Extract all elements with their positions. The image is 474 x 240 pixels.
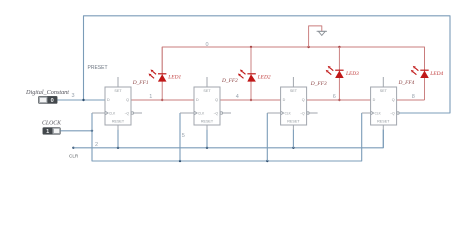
wire: FF2 clock drop xyxy=(179,113,181,161)
svg-text:1: 1 xyxy=(46,129,49,135)
node: LED2 top junction xyxy=(250,46,252,48)
wire: FF4 RESET to CLR bus xyxy=(382,130,384,148)
wire: ground stub xyxy=(309,26,322,47)
svg-text:CLK: CLK xyxy=(285,112,292,116)
svg-text:CLR: CLR xyxy=(69,154,79,159)
node: LED3 top junction xyxy=(338,46,340,48)
svg-text:D: D xyxy=(283,98,286,102)
wire: clock bus distributing CLOCK to all flip-flops xyxy=(92,113,362,161)
node: FF3 reset junction xyxy=(292,147,294,149)
node: LED3 anode to Q3 wire xyxy=(338,99,340,101)
svg-text:RESET: RESET xyxy=(201,120,214,124)
svg-text:D: D xyxy=(196,98,199,102)
svg-text:~Q: ~Q xyxy=(300,112,305,116)
svg-text:Q: Q xyxy=(302,98,305,102)
svg-text:SET: SET xyxy=(203,89,211,93)
svg-text:CLK: CLK xyxy=(375,112,382,116)
wire: Digital_Constant output to D input of D_FF1 xyxy=(57,99,105,101)
svg-text:Digital_Constant: Digital_Constant xyxy=(25,89,69,96)
svg-text:~Q: ~Q xyxy=(390,112,395,116)
svg-text:PRESET: PRESET xyxy=(88,65,108,71)
svg-text:LED3: LED3 xyxy=(345,71,359,77)
wire: FF3 RESET to CLR bus xyxy=(292,130,294,148)
wire: red net 0 bus across LED tops xyxy=(162,47,424,74)
svg-text:D_FF2: D_FF2 xyxy=(221,78,238,84)
svg-text:~Q: ~Q xyxy=(125,112,130,116)
clock source CLOCK xyxy=(43,128,60,136)
svg-text:D_FF1: D_FF1 xyxy=(132,80,149,86)
svg-text:D: D xyxy=(107,98,110,102)
svg-text:CLK: CLK xyxy=(198,112,205,116)
svg-text:CLK: CLK xyxy=(109,112,116,116)
svg-text:Q: Q xyxy=(392,98,395,102)
node: ground stub junction xyxy=(307,46,309,48)
wire: Q1 output net (net 1) xyxy=(131,99,194,101)
svg-text:RESET: RESET xyxy=(112,120,125,124)
wire: Q4 output net (net 8) xyxy=(397,99,425,101)
LED2 xyxy=(238,47,256,100)
svg-text:1: 1 xyxy=(149,94,152,100)
flip-flop D_FF1 xyxy=(92,77,142,130)
svg-text:~Q: ~Q xyxy=(214,112,219,116)
wire: feedback net from ~Q of D_FF4 around top to D of D_FF1 (blue loop) xyxy=(84,16,451,113)
svg-text:D_FF4: D_FF4 xyxy=(398,80,415,86)
svg-text:SET: SET xyxy=(380,89,388,93)
node: FF2 clock junction xyxy=(179,160,181,162)
ground GND xyxy=(317,31,327,35)
svg-text:CLOCK: CLOCK xyxy=(42,120,62,126)
svg-text:Q: Q xyxy=(215,98,218,102)
node: FF1 reset junction xyxy=(117,147,119,149)
node: LED1 anode to Q1 wire xyxy=(161,99,163,101)
svg-text:8: 8 xyxy=(412,94,415,100)
svg-text:6: 6 xyxy=(333,94,336,100)
svg-text:D_FF3: D_FF3 xyxy=(310,81,327,87)
LED4 xyxy=(411,47,429,100)
digital constant X1 xyxy=(39,96,58,104)
wire: FF3 clock drop xyxy=(266,113,268,161)
node: junction clock wire joins FF1 clock vertical xyxy=(91,130,93,132)
svg-text:Q: Q xyxy=(126,98,129,102)
node: FF3 clock junction xyxy=(266,160,268,162)
wire: Q3 output net (net 6) xyxy=(306,99,371,101)
terminal CLR (on-page connector) xyxy=(72,147,74,149)
flip-flop D_FF4 xyxy=(362,77,400,130)
wire: CLOCK output to clock drop of D_FF1 xyxy=(60,130,92,132)
svg-text:SET: SET xyxy=(290,89,298,93)
node: junction of feedback loop with D-input net xyxy=(82,99,84,101)
svg-text:2: 2 xyxy=(95,142,98,148)
LED1 xyxy=(149,47,167,100)
wire: CLR bus to RESET pins xyxy=(73,130,383,148)
node: FF2 reset junction xyxy=(206,147,208,149)
wire: Q2 output net (net 4) xyxy=(220,99,281,101)
svg-text:4: 4 xyxy=(236,94,239,100)
svg-text:5: 5 xyxy=(182,133,185,139)
svg-text:LED2: LED2 xyxy=(257,74,271,80)
svg-text:D: D xyxy=(373,98,376,102)
node: LED2 anode to Q2 wire xyxy=(250,99,252,101)
LED3 xyxy=(326,47,344,100)
svg-text:0: 0 xyxy=(206,42,209,48)
flip-flop D_FF3 xyxy=(267,77,317,130)
flip-flop D_FF2 xyxy=(180,77,231,130)
svg-text:3: 3 xyxy=(72,93,75,99)
svg-text:SET: SET xyxy=(114,89,122,93)
svg-text:LED4: LED4 xyxy=(429,71,443,77)
svg-text:RESET: RESET xyxy=(287,120,300,124)
wire: FF2 RESET to CLR bus xyxy=(206,130,208,148)
svg-text:LED1: LED1 xyxy=(167,74,181,80)
svg-text:0: 0 xyxy=(51,98,54,104)
wire: FF1 RESET to CLR bus xyxy=(117,130,119,148)
svg-text:RESET: RESET xyxy=(377,120,390,124)
